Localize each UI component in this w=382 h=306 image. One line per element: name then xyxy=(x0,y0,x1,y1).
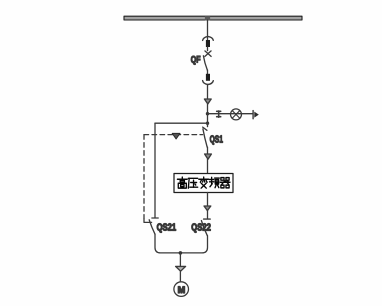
svg-text:QS21: QS21 xyxy=(157,223,177,234)
disconnector QS21 blade xyxy=(149,220,155,234)
breaker QF drawout contact upper (arc and block) xyxy=(203,36,214,47)
wire U join to motor node xyxy=(155,234,208,253)
dashed enclosure top xyxy=(144,134,203,136)
svg-text:M: M xyxy=(178,285,186,296)
busbar xyxy=(124,16,302,20)
wire VFD box to arrow xyxy=(207,193,209,206)
wire arrow to QS22 xyxy=(207,211,209,219)
disconnector QS21 contact tick xyxy=(152,217,158,219)
cable plug arrow above VFD xyxy=(205,154,212,159)
wire block to contact xyxy=(207,47,209,51)
cable plug arrow below VFD xyxy=(204,206,211,211)
wire breaker to cable arrow xyxy=(207,85,209,99)
wire junction to motor arrow xyxy=(179,253,181,266)
dashed enclosure left xyxy=(143,135,145,219)
indicator lamp xyxy=(231,109,242,120)
wire bypass branch vertical xyxy=(154,123,156,217)
VFD box 高压变频器 xyxy=(174,174,233,193)
breaker QF drawout contact lower (block and arc) xyxy=(203,74,214,85)
svg-text:QS22: QS22 xyxy=(191,223,211,234)
breaker QF blade xyxy=(203,56,207,70)
wire bus to breaker xyxy=(207,20,209,40)
terminal ticks on lamp branch xyxy=(217,111,221,117)
dashed enclosure bottom hook xyxy=(144,219,152,223)
VFD label glyph gao xyxy=(177,177,187,188)
label QS21 xyxy=(157,223,177,234)
marker triangle on dashed line xyxy=(172,133,180,139)
wire bypass branch horizontal xyxy=(155,122,208,124)
node bus tap junction xyxy=(205,16,210,20)
lamp branch end connector xyxy=(253,111,259,119)
wire tee to QS1 xyxy=(207,123,209,126)
VFD label glyph bian xyxy=(199,177,209,188)
VFD label glyph pin xyxy=(210,177,220,187)
wire QS1 to arrow xyxy=(207,147,209,154)
disconnector QS1 contact tick xyxy=(203,127,207,130)
wire tee to bypass tee xyxy=(207,114,209,124)
svg-text:QS1: QS1 xyxy=(210,135,224,146)
motor M xyxy=(174,282,189,297)
cable plug arrow below QF xyxy=(204,99,211,104)
disconnector QS1 blade xyxy=(203,129,207,147)
label QF xyxy=(191,54,201,64)
wire blade to lower block xyxy=(207,70,209,74)
wire lamp branch xyxy=(208,113,253,115)
VFD label glyph qi xyxy=(220,178,230,188)
disconnector QS22 blade xyxy=(201,221,207,236)
breaker QF contact cross xyxy=(205,51,211,57)
svg-text:QF: QF xyxy=(191,54,201,64)
wire arrow to lamp tee xyxy=(207,104,209,114)
wire arrow to motor xyxy=(179,271,181,282)
wire arrow to VFD box xyxy=(207,159,209,173)
disconnector QS22 contact tick xyxy=(204,218,211,220)
VFD label glyph ya xyxy=(188,178,197,188)
label QS22 xyxy=(191,223,211,234)
node bypass tee xyxy=(206,122,209,125)
node lamp tee xyxy=(206,112,209,115)
node motor junction xyxy=(179,251,183,255)
label QS1 xyxy=(210,135,224,146)
cable plug arrow above motor xyxy=(176,266,186,271)
